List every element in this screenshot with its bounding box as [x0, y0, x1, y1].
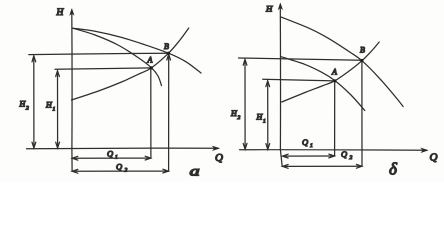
svg-text:A: A [331, 68, 337, 77]
right plot pump curve single (small, through point A) [281, 57, 365, 111]
left plot point B dot [167, 52, 170, 55]
right plot point B dot [360, 59, 363, 62]
left plot H axis (vertical) with extension down to Q2 dimension line [71, 12, 73, 171]
svg-text:Q: Q [215, 152, 223, 164]
svg-text:1: 1 [115, 155, 118, 161]
right plot H axis arrowhead [278, 3, 282, 10]
left plot horizontal line through A (head H1 level) [55, 68, 151, 69]
svg-text:1: 1 [263, 119, 266, 125]
right plot horizontal line through A (head H1 level) [263, 79, 335, 81]
right plot system curve (ascending through A and B) [282, 42, 380, 102]
right plot pump curve series-combined (large, through point B) [281, 17, 404, 107]
svg-text:a: a [190, 163, 200, 179]
right plot H axis (vertical) with extension down to Q2 dimension line [280, 6, 282, 166]
svg-text:1: 1 [53, 107, 56, 113]
svg-text:2: 2 [26, 106, 29, 112]
svg-text:H: H [265, 4, 273, 14]
left plot dimension line H2 (vertical, arrows both ends) [33, 57, 35, 147]
left plot dimension line H1 (vertical, arrows both ends) [57, 72, 59, 147]
right plot point A dot [333, 79, 336, 82]
left plot Q axis arrowhead [212, 146, 219, 151]
svg-text:H: H [56, 8, 65, 18]
svg-text:2: 2 [125, 168, 128, 174]
left plot point A dot [150, 66, 153, 69]
right plot Q axis arrowhead [421, 148, 428, 153]
left plot system curve (ascending through A and B) [72, 28, 189, 100]
svg-text:2: 2 [238, 115, 241, 121]
right plot drop line from B down to Q2 dimension line [361, 61, 363, 166]
right plot horizontal line through B (head H2 level) [239, 58, 362, 60]
right plot dimension line Q1 (arrows both ends) [283, 155, 334, 157]
svg-text:Q: Q [302, 137, 308, 147]
left plot pump curve 1 (steep, through point A) [73, 28, 162, 85]
svg-text:B: B [164, 42, 169, 51]
left plot pump curve 2 (shallow, through point B) [73, 28, 201, 73]
left plot drop line from A down to Q1 dimension line [150, 69, 152, 159]
svg-text:A: A [147, 56, 153, 65]
right plot drop line from A down to Q1 dimension line [334, 82, 336, 157]
left plot drop line from B down to Q2 dimension line (up arrow at top) [168, 55, 170, 172]
right plot dimension line H2 (vertical, arrows both ends) [244, 61, 246, 149]
svg-text:1: 1 [310, 143, 313, 149]
left plot Q axis (horizontal) [27, 147, 219, 150]
left plot dimension line Q1 (arrows both ends) [73, 157, 151, 159]
left plot H axis arrowhead [70, 9, 74, 16]
svg-text:Q: Q [116, 162, 122, 172]
svg-text:B: B [360, 46, 365, 55]
svg-text:2: 2 [350, 155, 353, 161]
svg-text:Q: Q [430, 152, 438, 164]
svg-text:δ: δ [389, 160, 398, 179]
svg-text:Q: Q [341, 149, 347, 159]
left plot horizontal line through B (head H2 level) [29, 53, 169, 54]
svg-text:Q: Q [107, 149, 113, 159]
right plot dimension line H1 (vertical, arrows both ends) [267, 82, 269, 148]
right plot dimension line Q2 (arrows both ends) [283, 165, 362, 167]
right plot Q axis (horizontal) [240, 149, 427, 152]
left plot dimension line Q2 (arrows both ends) [73, 170, 169, 172]
